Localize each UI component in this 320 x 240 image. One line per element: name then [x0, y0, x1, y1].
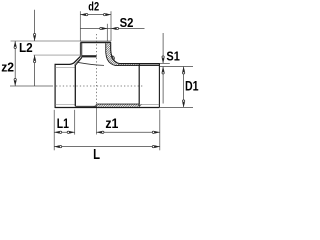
dim d2 arrow left — [80, 13, 85, 16]
svg-text:L2: L2 — [19, 40, 33, 55]
flare inner — [76, 58, 82, 66]
pipe top outer right — [120, 63, 160, 65]
svg-text:D1: D1 — [185, 78, 199, 93]
left end face — [54, 64, 56, 108]
z1 extension right — [159, 110, 161, 151]
branch internal shoulder thin — [34, 54, 82, 56]
centerline main pipe dotted — [56, 85, 143, 87]
branch right inner fillet — [106, 53, 116, 66]
L1 extension left — [53, 110, 55, 151]
dim z2 arrow down — [14, 81, 17, 86]
branch right wall outer — [110, 43, 112, 49]
centerline branch — [95, 34, 97, 108]
branch internal shoulder dark — [82, 55, 97, 57]
dim S2 extension left — [106, 24, 108, 41]
dim L2 upper segment — [34, 10, 36, 41]
svg-text:S2: S2 — [120, 15, 134, 30]
dim d2 extension left — [79, 11, 81, 41]
dim D1 line — [183, 67, 185, 108]
pipe bottom inner left — [75, 105, 96, 107]
branch rim dark band — [80, 42, 111, 44]
dim S1 arrow down — [162, 58, 165, 63]
dim L1 arrow right — [70, 131, 75, 134]
svg-text:d2: d2 — [88, 0, 99, 14]
D1 extension bottom — [160, 106, 193, 108]
dim S2 arrow left — [102, 27, 107, 30]
dim d2 line — [80, 14, 111, 16]
dim L1 line — [54, 131, 74, 133]
dim D1 arrow up — [182, 67, 185, 72]
branch left wall inner — [81, 43, 83, 58]
right socket bore bottom faint — [139, 103, 159, 105]
dim z2 line — [14, 41, 16, 86]
branch right wall inner — [105, 43, 107, 52]
pipe top right socket inner line — [140, 64, 160, 66]
svg-text:L: L — [93, 147, 100, 163]
hatch pipe bottom right band — [93, 104, 142, 108]
dim z2 arrow up — [14, 41, 17, 46]
bead nub on fillet — [111, 56, 115, 60]
S1 D1 shared extension — [160, 66, 193, 68]
branch left wall outer — [79, 43, 81, 57]
L1 extension right — [74, 110, 76, 135]
pipe bottom outer — [55, 107, 160, 109]
dim L1 arrow left — [54, 131, 59, 134]
svg-text:z1: z1 — [105, 115, 118, 131]
branch right outer fillet — [111, 50, 120, 64]
extension z1 centerline — [95, 108, 97, 135]
bottom step at branch centerline — [95, 104, 97, 106]
svg-text:L1: L1 — [57, 115, 69, 131]
pipe bottom inner right — [96, 103, 139, 105]
dim L line — [54, 146, 160, 148]
saddle line under branch — [77, 62, 104, 65]
dim S1 lower segment — [162, 67, 164, 104]
svg-text:z2: z2 — [1, 60, 14, 75]
dim L2 arrow up — [33, 55, 36, 60]
centerline main pipe solid left segment — [10, 85, 53, 87]
S1 extension top — [160, 62, 170, 64]
right end face — [158, 63, 160, 107]
pipe top inner right — [116, 65, 160, 67]
dim D1 arrow down — [182, 102, 185, 107]
left socket bore bottom faint — [55, 104, 75, 106]
dim L2 lower segment — [34, 55, 36, 86]
pipe top outer left + flare outer — [55, 56, 81, 64]
dim S2 line — [80, 28, 144, 30]
right socket shoulder — [138, 64, 140, 106]
dim S1 upper segment — [162, 33, 164, 63]
dim d2 extension right shared — [110, 11, 112, 41]
dim d2 arrow right — [106, 13, 111, 16]
left socket shoulder — [74, 65, 76, 106]
svg-text:S1: S1 — [166, 48, 179, 63]
hatch pipe top right band — [118, 63, 141, 65]
dim S1 arrow up — [162, 67, 165, 72]
dim S2 arrow right — [111, 27, 116, 30]
left socket bore top faint — [55, 66, 75, 68]
branch rim thin line — [11, 40, 111, 42]
dim z1 arrow left — [96, 131, 101, 134]
dim L arrow right — [155, 145, 160, 148]
dim z1 line — [96, 131, 159, 133]
hatch branch right wall and fillet — [81, 43, 142, 66]
hatch left flare band — [62, 56, 92, 66]
dim L arrow left — [54, 145, 59, 148]
dim z1 arrow right — [155, 131, 160, 134]
dim L2 arrow down — [33, 36, 36, 41]
pipe top inner left (merges into flare) — [75, 64, 77, 66]
